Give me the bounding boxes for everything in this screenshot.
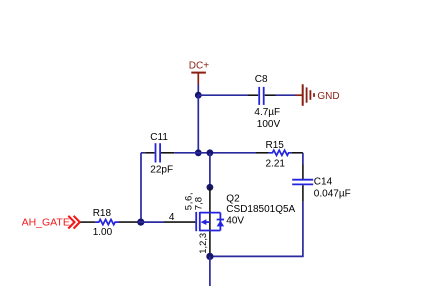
svg-text:C11: C11: [150, 132, 168, 143]
power symbol DC+: [189, 61, 209, 85]
capacitor C14: [292, 165, 351, 202]
wire DC+ stem: [197, 85, 199, 96]
svg-text:Q2: Q2: [226, 193, 240, 204]
svg-text:C14: C14: [314, 176, 333, 187]
transistor Q2 MOSFET body: [196, 212, 220, 231]
svg-text:CSD18501Q5A: CSD18501Q5A: [226, 204, 295, 215]
wire C11 corner: [141, 153, 145, 222]
wire R15 corner down to C14: [302, 153, 304, 165]
svg-text:40V: 40V: [226, 216, 244, 227]
pin 4 gate lead: [164, 221, 195, 223]
svg-text:4.7µF: 4.7µF: [254, 107, 280, 118]
node junction gate wire / C11 branch: [137, 219, 144, 226]
resistor R15: [256, 140, 303, 170]
node junction drain pin: [207, 184, 214, 191]
svg-text:GND: GND: [317, 91, 339, 102]
svg-text:1.00: 1.00: [93, 227, 113, 238]
node junction rail/DC+: [195, 149, 202, 156]
node junction source: [206, 253, 213, 260]
Q2 substrate arrow: [201, 219, 207, 225]
svg-text:DC+: DC+: [189, 61, 209, 72]
resistor R18: [81, 208, 139, 238]
svg-text:AH_GATE: AH_GATE: [22, 216, 70, 228]
node junction rail/drain: [207, 149, 214, 156]
svg-text:0.047µF: 0.047µF: [314, 188, 351, 199]
svg-text:1,2,3: 1,2,3: [197, 233, 208, 254]
svg-text:2.21: 2.21: [266, 159, 286, 170]
svg-text:100V: 100V: [257, 119, 281, 130]
Q2 labels: [226, 193, 295, 226]
svg-text:R18: R18: [93, 208, 112, 219]
capacitor C11: [145, 132, 174, 175]
node junction DC+/C8: [195, 92, 202, 99]
wire C8 to GND: [276, 94, 296, 96]
svg-text:7,8: 7,8: [193, 197, 204, 210]
Q2 body diode: [217, 220, 224, 226]
svg-text:4: 4: [169, 212, 175, 223]
wire C11 to R15: [174, 152, 256, 154]
power symbol GND: [296, 84, 340, 106]
wire gate: [138, 221, 164, 223]
port AH_GATE: [22, 216, 80, 229]
capacitor C8: [248, 74, 280, 130]
wire DC+ node down to C11/R15 rail: [197, 95, 199, 153]
svg-text:C8: C8: [255, 74, 268, 85]
svg-text:22pF: 22pF: [150, 164, 173, 175]
svg-text:R15: R15: [266, 140, 285, 151]
wire source to bottom edge: [209, 256, 211, 286]
wire node to C8: [198, 94, 248, 96]
drain lead: [209, 187, 211, 256]
wire C14 down and left to source node: [210, 202, 303, 257]
wire drain from rail: [209, 153, 211, 188]
